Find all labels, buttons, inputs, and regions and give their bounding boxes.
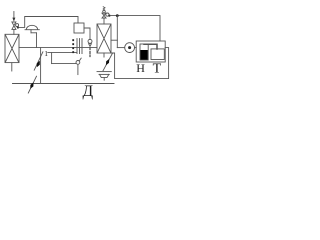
- damper arrow A1 (on riser): [34, 52, 43, 70]
- drain valve D (circle with handle): [76, 58, 81, 64]
- damper arrow A2 (on duct): [28, 76, 36, 93]
- branch pipe from J1: [116, 16, 118, 48]
- junction node J1: [116, 14, 119, 17]
- air filter box F1 (left box with X): [5, 34, 19, 62]
- outdoor air duct: [13, 83, 115, 85]
- riser duct: [36, 33, 38, 48]
- riser duct below bus: [40, 48, 42, 84]
- tank T2: [151, 49, 164, 60]
- pipe line A: [48, 52, 77, 54]
- boiler unit box U1: [136, 41, 165, 62]
- main bus pipe: [19, 47, 97, 49]
- pipe to pump: [117, 47, 124, 49]
- exhaust hood (umbrella): [25, 25, 39, 32]
- pump P1 (circle with dot): [125, 43, 135, 53]
- wire from box B1 to sensor: [84, 28, 90, 40]
- drain funnel symbol: [97, 72, 111, 81]
- control valve K2 (bowtie with actuator): [102, 10, 111, 24]
- pipe drop B: [51, 53, 53, 64]
- fuel tank T1 (half filled): [140, 44, 148, 60]
- control valve K1 (bowtie with actuator): [12, 22, 19, 34]
- temperature sensor S1 (circle with dashed capillary): [88, 39, 92, 56]
- air heater coil W1 (dashes and plates): [72, 39, 82, 54]
- stub into box E1: [111, 39, 117, 41]
- svg-text:1: 1: [44, 49, 48, 58]
- svg-text:Т: Т: [153, 62, 162, 77]
- spring of valve K2: [103, 7, 105, 10]
- heat exchanger box E1 (right box with X): [97, 24, 111, 53]
- controller box B1: [74, 23, 84, 33]
- return pipe loop: [111, 48, 169, 79]
- exhaust stub below filter box: [11, 63, 13, 71]
- wire from valve K1 to box B1: [19, 17, 78, 28]
- drain drop E: [77, 65, 79, 75]
- pipe line C: [52, 63, 77, 65]
- damper arrow A3 (under box E1): [103, 53, 113, 71]
- flow arrow into valve K1: [12, 12, 15, 22]
- svg-text:Н: Н: [136, 61, 145, 75]
- svg-text:Д: Д: [83, 83, 94, 100]
- pipe tank T1 to tank T2: [144, 44, 157, 49]
- top supply pipe: [111, 16, 161, 41]
- pipe pump to boiler unit: [135, 47, 137, 49]
- stem below box E1: [103, 53, 105, 57]
- wire from hood to riser: [31, 32, 37, 34]
